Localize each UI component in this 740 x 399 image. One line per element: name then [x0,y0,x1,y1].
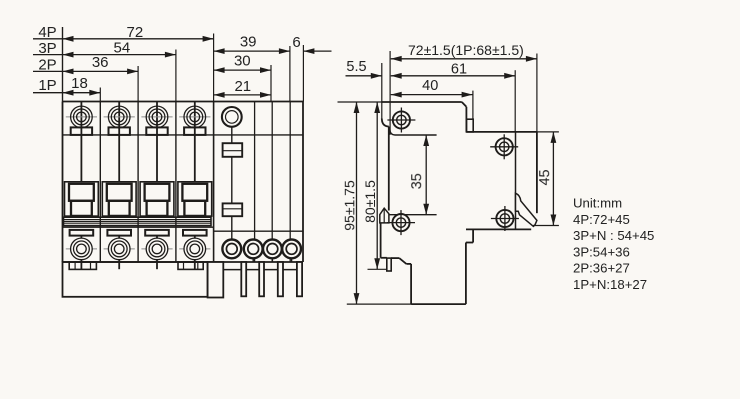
side view: lower-right mounting screw hole [491,206,519,231]
dimension 45 (rear height) [537,132,556,226]
dimension 18 (1P width) [63,75,101,96]
svg-text:61: 61 [451,62,467,78]
side view: top step edge [465,107,467,132]
label 2P [38,57,56,74]
add-on internal linkage and blocks [223,127,243,240]
label 4P [38,24,56,41]
pole 1 bottom screw terminal [66,236,97,269]
svg-text:80±1.5: 80±1.5 [362,180,378,223]
svg-text:3P:54+36: 3P:54+36 [573,244,630,259]
side view: lower right edge [465,243,467,305]
unit legend text block [573,196,654,292]
side view: lower-left mounting screw hole [387,210,415,235]
front view extension lines [100,34,303,102]
pole 1 top screw terminal [66,102,97,182]
dimension 35 (hole spacing) [409,135,429,215]
front view: 4P/add-on section divider [213,102,215,263]
pole 3 toggle handle [140,182,174,216]
side view: upper front face [388,127,390,211]
pole-count label lines [33,39,63,93]
svg-text:35: 35 [409,173,425,189]
front view: add-on compartment dividers [255,102,291,263]
side view: top rear tab [466,119,473,132]
pole 4 toggle handle [178,182,212,216]
dimension 6 (right tab width) [292,34,331,54]
pole 2 top screw terminal [104,102,135,182]
dimension 39 (add-on width) [214,34,290,54]
svg-text:30: 30 [234,52,251,69]
svg-text:40: 40 [422,78,438,94]
svg-text:18: 18 [71,75,88,92]
side view: bottom terminal block [391,258,466,304]
svg-text:4P: 4P [38,24,56,41]
front view: pole divider lines [100,102,176,263]
label 1P [38,77,56,94]
svg-text:95±1.75: 95±1.75 [341,180,357,231]
svg-text:6: 6 [292,34,300,51]
side view: rear bottom edge [466,228,531,230]
dimension 72 (4P width) [63,24,214,42]
pole 4 bottom screw terminal [179,236,210,269]
front view: bottom terminal line [63,261,304,263]
front view: add-on connection prongs [241,262,302,296]
pole 4 bottom terminal clamp [183,230,207,236]
dimension 54 (3P width) [63,40,176,58]
pole 3 bottom screw terminal [141,236,172,269]
side view: rear bottom tab [466,230,473,243]
svg-text:Unit:mm: Unit:mm [573,196,622,211]
pole 2 bottom screw terminal [104,236,135,269]
front view: body left edge [62,102,64,263]
pole 1 top terminal clamp [71,127,92,134]
front view: add-on bottom skirt line [223,269,302,271]
side view: upper-left mounting screw hole [387,108,415,133]
front view: add-on foot block [208,262,224,298]
dimension 40 [391,78,473,98]
svg-text:72±1.5(1P:68±1.5): 72±1.5(1P:68±1.5) [408,42,524,58]
svg-text:36: 36 [92,54,109,71]
svg-text:39: 39 [240,34,257,51]
svg-text:1P: 1P [38,77,56,94]
label 3P [38,40,56,57]
svg-text:2P: 2P [38,57,56,74]
pole 3 top terminal clamp [146,127,167,134]
side view: lower front face [380,223,382,258]
front view: left DIN clip tab [69,262,96,269]
side view: inner ledge line [390,130,437,136]
svg-text:54: 54 [114,40,131,57]
pole 1 bottom terminal clamp [70,230,94,236]
pole 3 top screw terminal [141,102,172,182]
dimension 5.5 [346,59,382,79]
pole 2 toggle handle [102,182,136,216]
svg-text:2P:36+27: 2P:36+27 [573,261,630,276]
side view height extension lines [338,102,559,304]
side view: upper-right mounting screw hole [490,134,518,159]
dimension 61 [391,62,516,79]
pole 1 toggle handle [65,182,99,216]
side view: front mounting ear [380,208,389,223]
svg-text:45: 45 [537,169,553,185]
side view: top face [382,102,467,107]
front view: body right edge [302,102,304,263]
front view: 4P mid line under tie bar [63,226,214,228]
add-on terminal centerline stubs [253,258,291,262]
svg-text:4P:72+45: 4P:72+45 [573,212,630,227]
side view: back face [536,132,538,213]
pole 4 top screw terminal [179,102,210,182]
add-on neutral ring terminals [222,240,301,259]
pole 2 top terminal clamp [109,127,130,134]
front view: breaker body top edge [63,101,304,103]
dimension 36 (2P width) [63,54,139,74]
svg-text:5.5: 5.5 [346,59,366,75]
main extension line at body left [62,27,64,102]
pole 3 bottom terminal clamp [145,230,169,236]
side view: DIN rail clip lever [516,132,537,230]
front view: top terminal shelf line [63,134,304,136]
svg-text:3P+N : 54+45: 3P+N : 54+45 [573,228,654,243]
dimension 80±1.5 [362,102,380,269]
svg-text:3P: 3P [38,40,56,57]
dimension 95±1.75 (total height) [341,102,359,304]
front view: right DIN clip tab [178,262,203,269]
svg-text:21: 21 [234,78,251,95]
front view: bottom housing box [63,262,208,297]
pole 4 top terminal clamp [184,127,205,134]
front view: add-on mid line [214,230,303,232]
svg-text:1P+N:18+27: 1P+N:18+27 [573,277,647,292]
dimension 21 [214,78,271,98]
pole 2 bottom terminal clamp [107,230,131,236]
side view: lower ledge line [389,214,437,216]
dimension 72±1.5 (depth) [391,42,537,62]
side view: bottom front tab [387,258,391,271]
side view: rear top face [466,131,537,133]
side view top extension lines [382,51,537,135]
add-on test button [222,107,242,127]
side view: front step arc [382,119,389,127]
toggle tie bar [64,217,212,225]
svg-text:72: 72 [127,24,144,41]
side view: bottom front edge [381,257,387,259]
dimension 30 [214,52,271,73]
